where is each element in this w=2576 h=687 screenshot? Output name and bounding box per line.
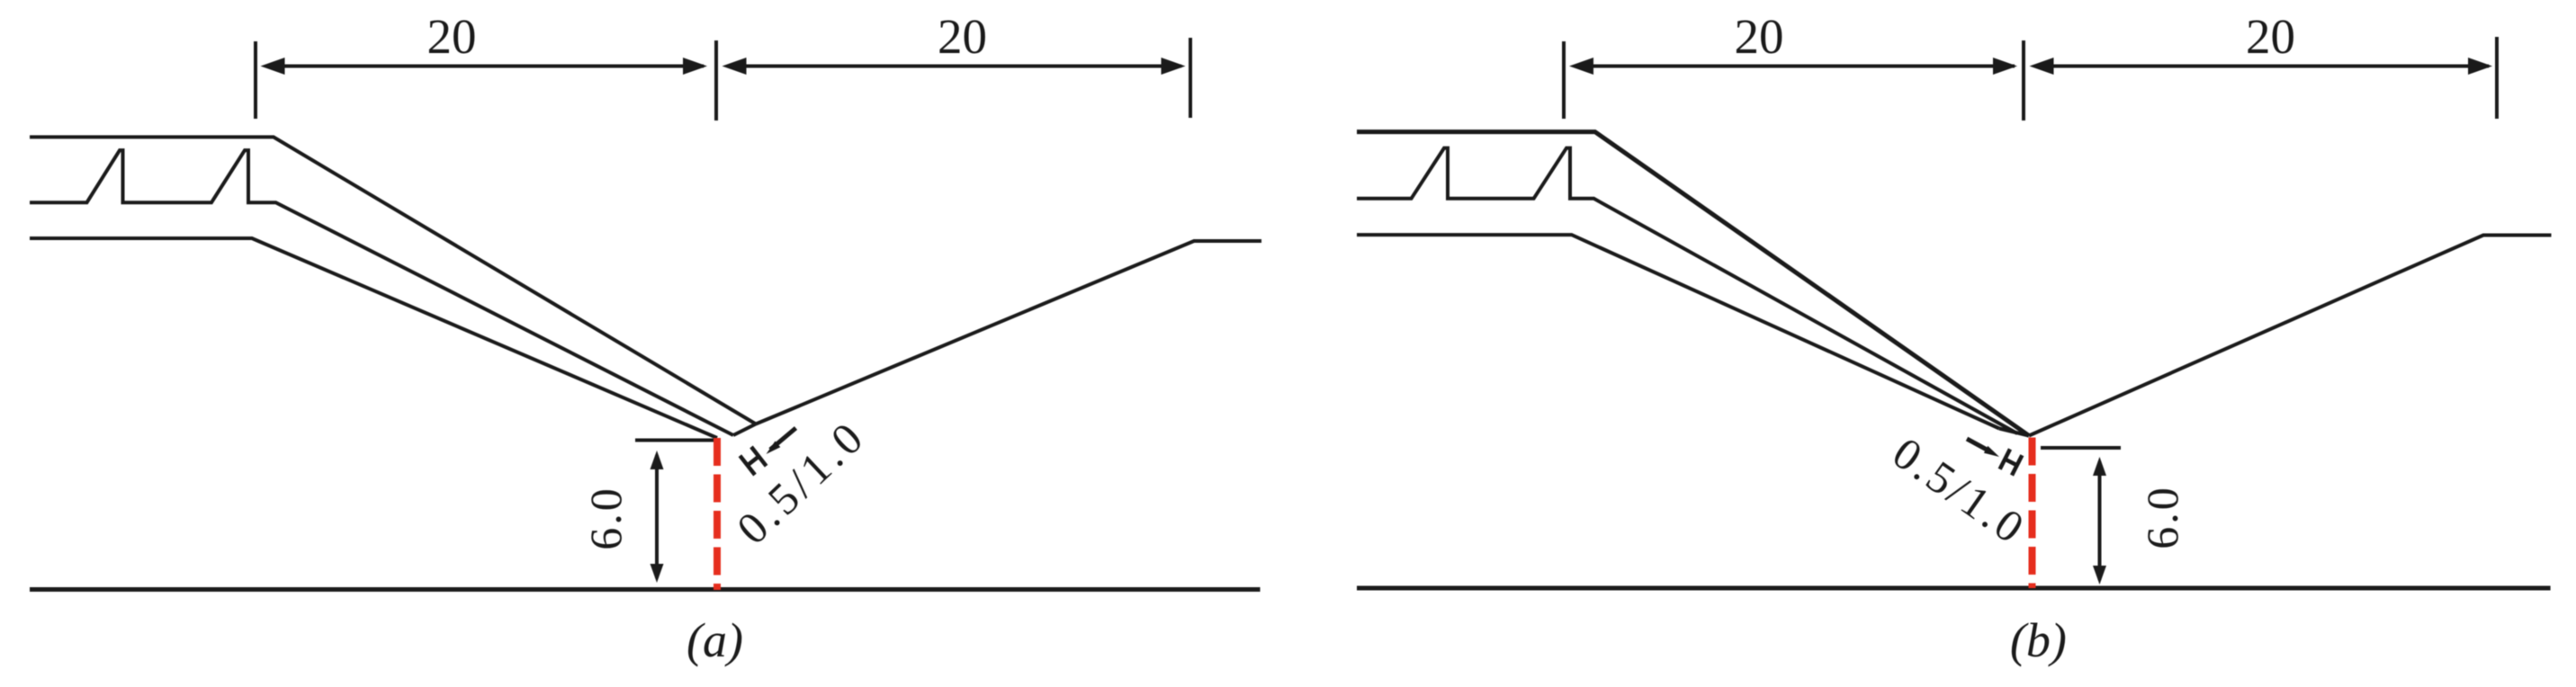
- svg-text:20: 20: [427, 9, 477, 64]
- svg-text:(a): (a): [687, 613, 743, 667]
- svg-text:6.0: 6.0: [580, 486, 631, 550]
- svg-text:6.0: 6.0: [2137, 485, 2187, 549]
- svg-text:(b): (b): [2010, 613, 2067, 667]
- svg-text:20: 20: [1735, 9, 1784, 64]
- svg-text:20: 20: [938, 9, 987, 64]
- svg-text:20: 20: [2246, 9, 2295, 64]
